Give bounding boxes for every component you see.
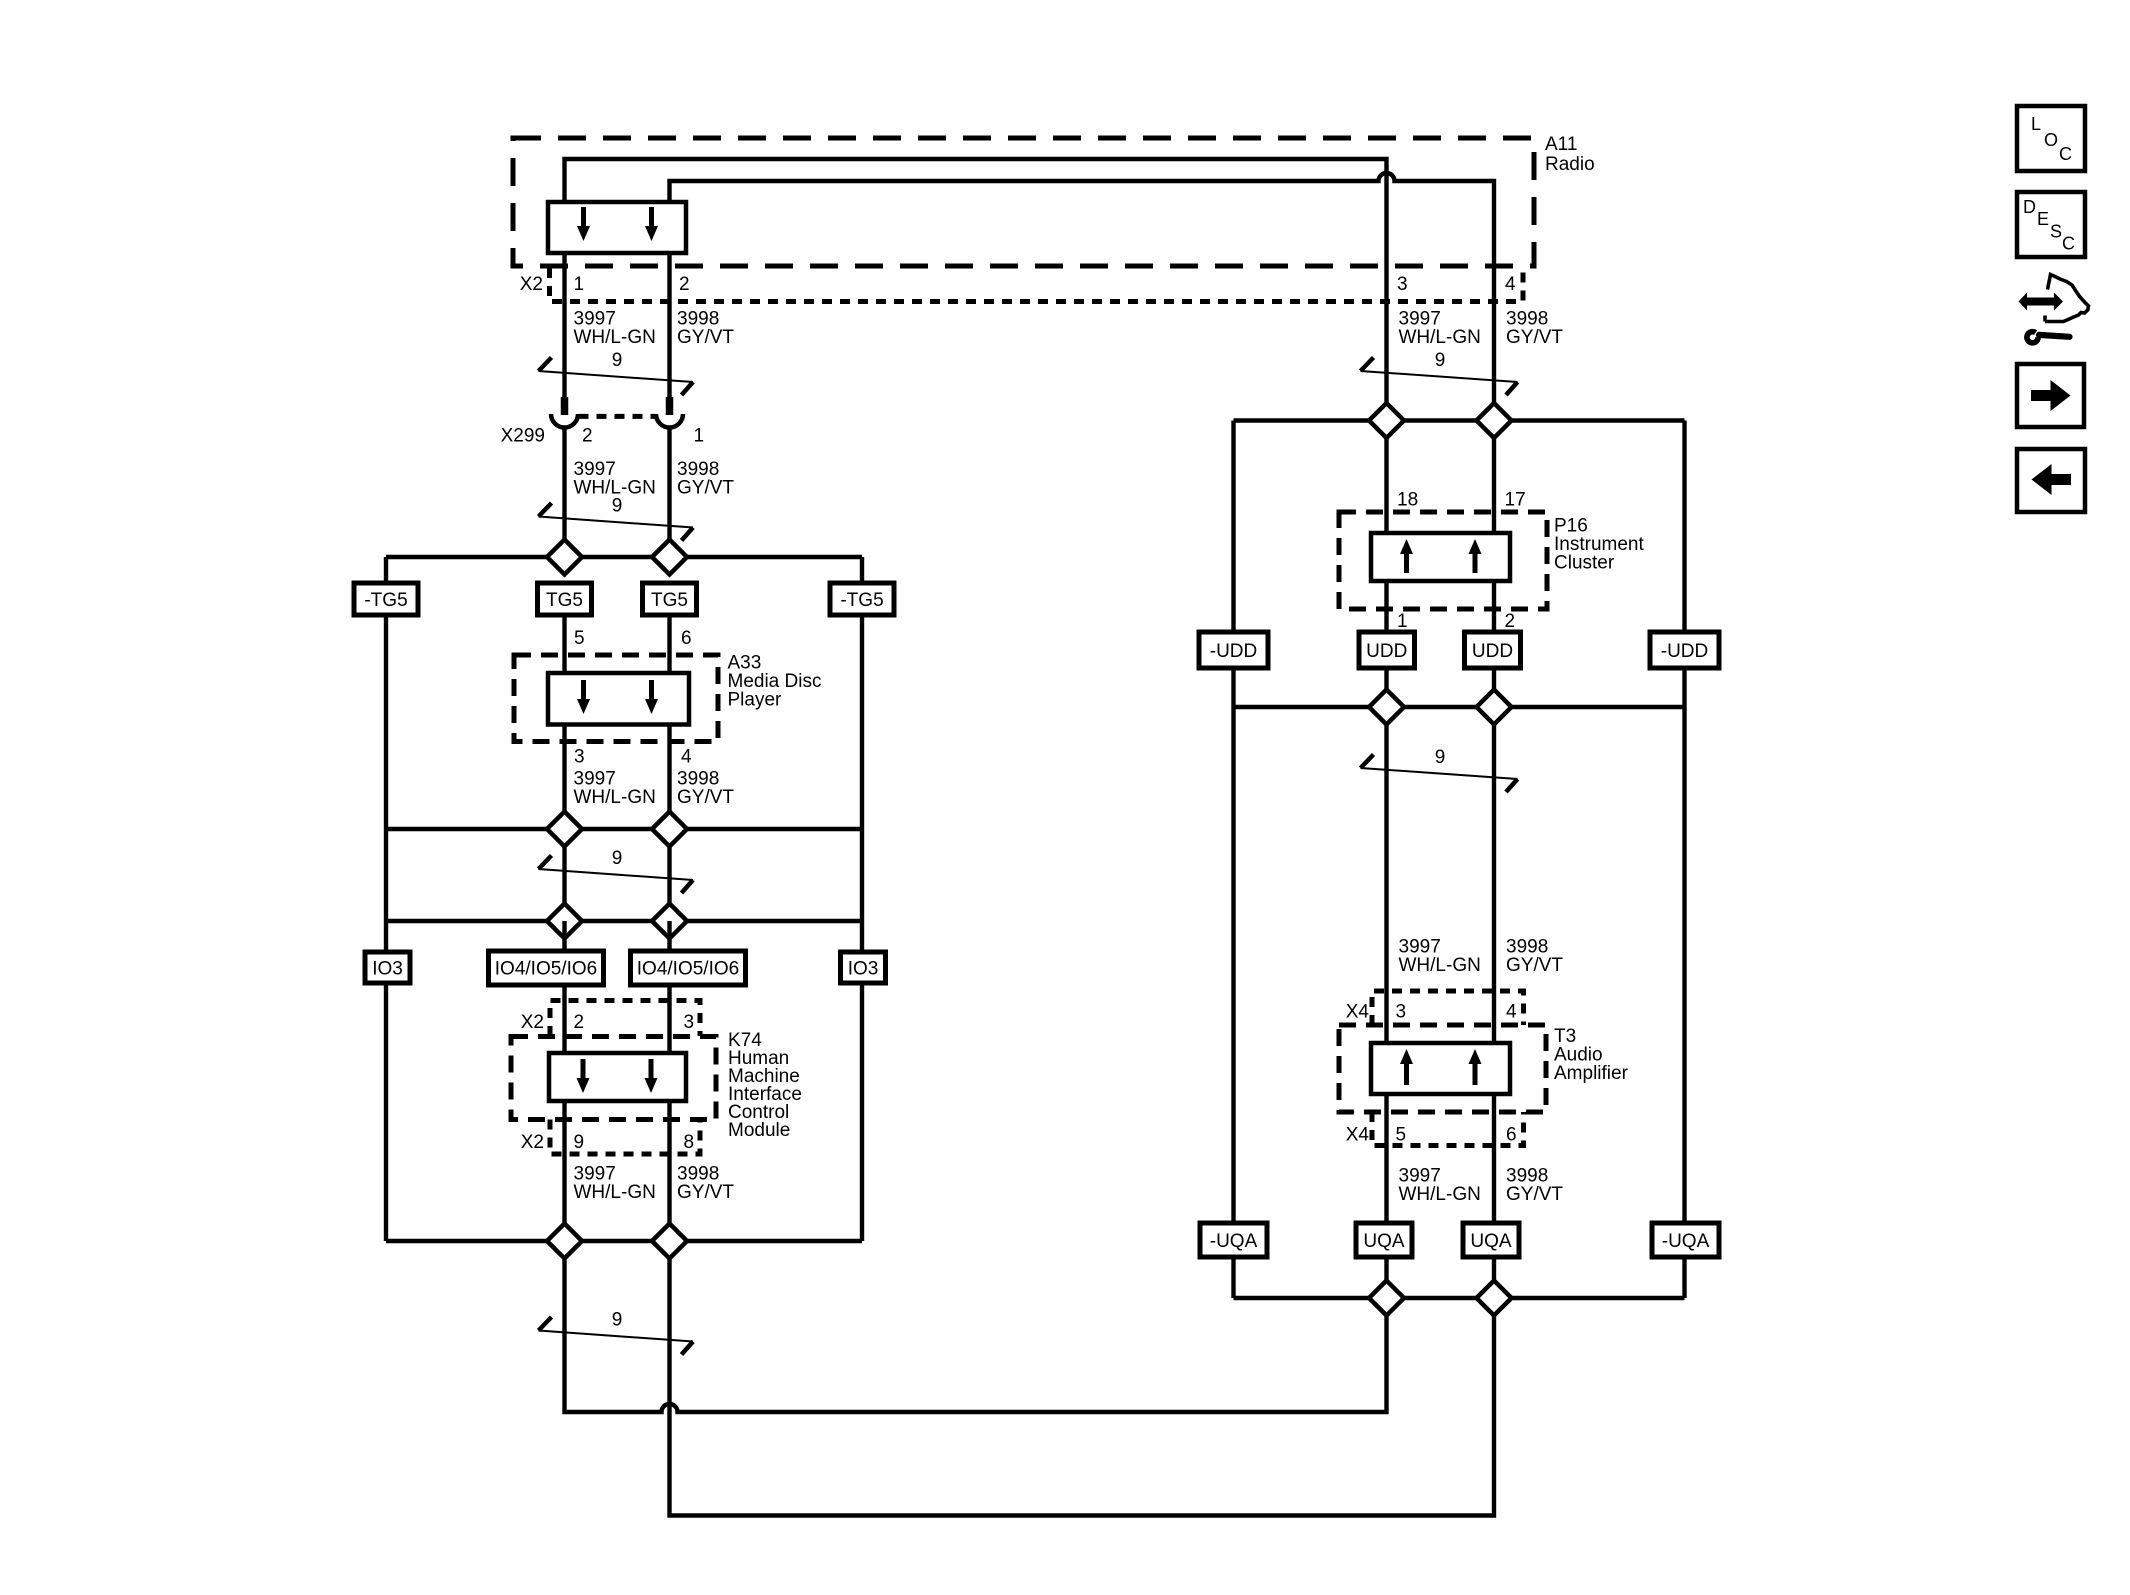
- net box IO3 right: [841, 952, 886, 983]
- label wire 3997 WH/L-GN below X2 pin 3: [1399, 309, 1481, 349]
- connector X4 of T3 upper dotted boundary: [1372, 991, 1524, 1025]
- wire -UQA right leg to bottom bus: [1682, 1257, 1686, 1298]
- A33 connector arrow pin 5: [577, 680, 590, 714]
- pin 1 of X299: [694, 426, 705, 447]
- wire 3997 below A33: [562, 725, 566, 812]
- component T3 dashed outline: [1339, 1025, 1546, 1112]
- sidebar next arrow box: [2017, 364, 2084, 427]
- wire -UDD left leg to lower bus: [1231, 668, 1235, 707]
- pin 2 of X299: [582, 426, 593, 447]
- svg-text:Cluster: Cluster: [1554, 553, 1615, 574]
- svg-text:4: 4: [1505, 274, 1516, 295]
- splice diamond on 3997 at bus4: [547, 1224, 582, 1259]
- net box UDD on 3997: [1359, 632, 1415, 668]
- bus wire IO horizontal: [386, 919, 862, 923]
- svg-text:WH/L-GN: WH/L-GN: [1399, 955, 1481, 976]
- svg-text:2: 2: [679, 274, 690, 295]
- svg-text:A11: A11: [1545, 134, 1577, 155]
- svg-text:3: 3: [684, 1012, 695, 1033]
- component A33 dashed outline: [514, 655, 718, 742]
- svg-text:1: 1: [574, 274, 585, 295]
- splice diamond on 3998 at bus2: [652, 812, 687, 847]
- T3 connector box: [1371, 1043, 1510, 1094]
- wire 3997 below UQA box: [1384, 1257, 1388, 1281]
- sidebar service icon vehicle outline: [2045, 275, 2089, 322]
- label wire 3998 GY/VT below T3: [1506, 1166, 1563, 1206]
- svg-text:9: 9: [612, 1310, 623, 1331]
- twisted pair symbol 9 left third: [539, 848, 694, 893]
- connector X4 of T3 lower dotted boundary: [1372, 1112, 1524, 1146]
- wire -UQA left leg to bottom bus: [1231, 1257, 1235, 1298]
- svg-text:O: O: [2044, 130, 2058, 150]
- wire -UDD right leg to lower bus: [1682, 668, 1686, 707]
- wire 3997 below K74: [562, 1101, 566, 1224]
- pin 2 of P16: [1505, 611, 1516, 632]
- splice diamond on 3997 at UDD top bus: [1369, 403, 1404, 438]
- wire left vertical bus2 to bus3: [384, 829, 388, 921]
- svg-text:WH/L-GN: WH/L-GN: [574, 327, 656, 348]
- twisted pair symbol 9 left second: [539, 496, 694, 541]
- wire 3997 from IO box to K74: [562, 921, 566, 1055]
- pin 2 of X2: [679, 274, 690, 295]
- svg-text:GY/VT: GY/VT: [677, 1182, 734, 1203]
- pin 3 of A33: [574, 747, 585, 768]
- svg-text:-TG5: -TG5: [364, 590, 407, 611]
- P16 connector box: [1371, 533, 1510, 581]
- pin 6 of T3: [1506, 1125, 1517, 1146]
- sidebar service icon wrench: [2027, 332, 2070, 343]
- label wire 3997 WH/L-GN below T3: [1399, 1166, 1481, 1206]
- svg-text:GY/VT: GY/VT: [677, 327, 734, 348]
- wire 3997 below UDD box: [1384, 668, 1388, 690]
- wire -TG5 left leg down to bus2: [384, 615, 388, 829]
- svg-text:S: S: [2050, 222, 2062, 242]
- wire leg UDD-top-bus to -UDD right: [1682, 421, 1686, 633]
- svg-text:1: 1: [1397, 611, 1408, 632]
- A33 connector box: [548, 673, 689, 725]
- svg-text:4: 4: [681, 747, 692, 768]
- bus wire UDD bottom horizontal: [1234, 705, 1685, 709]
- label wire 3997 WH/L-GN below A33: [574, 769, 656, 809]
- svg-text:TG5: TG5: [651, 590, 688, 611]
- connector X299 terminal on wire 3997: [551, 397, 578, 428]
- sidebar LOC box: [2017, 106, 2085, 171]
- svg-text:D: D: [2023, 197, 2036, 217]
- twisted pair symbol 9 right top: [1361, 350, 1518, 395]
- svg-text:X299: X299: [501, 426, 545, 447]
- net box UDD on 3998: [1465, 632, 1521, 668]
- K74 connector box: [549, 1053, 686, 1101]
- wire 3998 from P16 pin 2 to UDD box: [1492, 581, 1496, 632]
- label wire 3998 GY/VT below A33: [677, 769, 734, 809]
- wire 3998 GY/VT segment below X299: [667, 428, 671, 540]
- label connector X4 lower of T3: [1346, 1125, 1370, 1146]
- wire 3998 from bus to P16 pin 17: [1492, 438, 1496, 535]
- K74 connector arrow pin 2: [577, 1059, 590, 1093]
- svg-text:6: 6: [681, 628, 692, 649]
- svg-text:WH/L-GN: WH/L-GN: [574, 787, 656, 808]
- splice diamond on 3998 at bus4: [652, 1224, 687, 1259]
- splice diamond on 3998 at UDD top bus: [1477, 403, 1512, 438]
- net box IO4/IO5/IO6 right: [631, 951, 746, 985]
- pin 5 of A33: [574, 628, 585, 649]
- pin 3 of K74: [684, 1012, 695, 1033]
- wire 3997 bottom route to right diamond: [565, 1316, 1387, 1413]
- A33 connector arrow pin 6: [645, 680, 658, 714]
- svg-text:GY/VT: GY/VT: [677, 787, 734, 808]
- net box TG5 on 3998: [643, 583, 697, 615]
- svg-text:UDD: UDD: [1472, 641, 1513, 662]
- connector X2 of K74 upper dotted boundary: [550, 1001, 700, 1037]
- wire right vertical bus2 to bus3: [860, 829, 864, 921]
- svg-text:2: 2: [574, 1012, 585, 1033]
- svg-text:WH/L-GN: WH/L-GN: [1399, 1184, 1481, 1205]
- svg-text:UDD: UDD: [1366, 641, 1407, 662]
- wire 3998 below UQA box: [1492, 1257, 1496, 1281]
- net box -UQA left: [1200, 1223, 1267, 1257]
- pin 17 of P16: [1505, 490, 1526, 511]
- wire 3998 between bus2 and bus3: [667, 847, 671, 904]
- svg-text:6: 6: [1506, 1125, 1517, 1146]
- T3 connector arrow pin 4: [1469, 1049, 1482, 1085]
- svg-text:WH/L-GN: WH/L-GN: [574, 1182, 656, 1203]
- wire 3998 below T3: [1492, 1094, 1496, 1224]
- wire 3997 from bus to P16 pin 18: [1384, 438, 1388, 535]
- wire 3997 from P16 pin 1 to UDD box: [1384, 581, 1388, 632]
- pin 1 of X2: [574, 274, 585, 295]
- label P16 Instrument Cluster: [1554, 516, 1644, 574]
- pin 3 of T3: [1396, 1002, 1407, 1023]
- wire 3998 from IO box to K74: [667, 921, 671, 1055]
- wire IO3 right leg down to bus4: [860, 983, 864, 1241]
- label wire 3998 GY/VT below X2 pin 2: [677, 309, 734, 349]
- pin 8 of K74: [684, 1132, 695, 1153]
- net box -UDD left: [1199, 632, 1268, 668]
- leg to IO3 right: [860, 921, 864, 952]
- wire 3998 below A33: [667, 725, 671, 812]
- svg-text:X2: X2: [520, 274, 543, 295]
- svg-text:4: 4: [1506, 1002, 1517, 1023]
- bus wire UQA bottom horizontal: [1234, 1296, 1685, 1300]
- label A33 Media Disc Player: [728, 653, 822, 711]
- label A11 Radio: [1545, 134, 1595, 175]
- wire 3997 below bus4: [562, 1259, 566, 1411]
- label wire 3998 GY/VT below X2 pin 4: [1506, 309, 1563, 349]
- svg-text:9: 9: [612, 496, 623, 517]
- A11 radio connector box: [548, 202, 686, 253]
- splice diamond on 3997 at TG5 bus: [547, 540, 582, 575]
- wire 3997 right segment above UDD bus: [1384, 401, 1388, 405]
- svg-text:3: 3: [1396, 1002, 1407, 1023]
- svg-text:WH/L-GN: WH/L-GN: [1399, 327, 1481, 348]
- splice diamond on 3998 at UQA bottom bus: [1477, 1281, 1512, 1316]
- label T3 Audio Amplifier: [1554, 1026, 1629, 1084]
- wire 3998 top run from A11 connector to pin 4 drop with hop over 3997: [670, 173, 1495, 268]
- svg-text:1: 1: [694, 426, 705, 447]
- svg-text:Module: Module: [728, 1120, 790, 1141]
- net box IO3 left: [365, 952, 410, 983]
- net box UQA on 3997: [1356, 1223, 1412, 1257]
- twisted pair symbol 9 left bottom: [539, 1310, 694, 1355]
- net box -TG5 right: [830, 583, 894, 615]
- svg-text:9: 9: [1435, 350, 1446, 371]
- component K74 dashed outline: [511, 1037, 716, 1120]
- svg-text:17: 17: [1505, 490, 1526, 511]
- label wire 3998 GY/VT below X299: [677, 459, 734, 499]
- wire 3997 from UDD bus to X4: [1384, 725, 1388, 1046]
- wire IO3 left leg down to bus4: [384, 983, 388, 1241]
- pin 1 of P16: [1397, 611, 1408, 632]
- sidebar service icon double arrow: [2019, 293, 2064, 311]
- label wire 3998 GY/VT above T3: [1506, 937, 1563, 977]
- wire right vertical UDD bus to -UQA: [1682, 707, 1686, 1223]
- splice diamond on 3997 at UQA bottom bus: [1369, 1281, 1404, 1316]
- leg to -TG5 right: [860, 557, 864, 583]
- T3 connector arrow pin 3: [1400, 1049, 1413, 1085]
- label connector X2: [520, 274, 543, 295]
- wire leg UDD-top-bus to -UDD left: [1231, 421, 1235, 633]
- label wire 3997 WH/L-GN above T3: [1399, 937, 1481, 977]
- svg-text:9: 9: [1435, 747, 1446, 768]
- wire left vertical UDD bus to -UQA: [1231, 707, 1235, 1223]
- svg-text:-TG5: -TG5: [840, 590, 883, 611]
- wire 3997 WH/L-GN segment below X2 pin 1: [562, 253, 566, 397]
- svg-text:C: C: [2059, 144, 2072, 164]
- bus wire UDD top horizontal: [1234, 418, 1685, 422]
- label wire 3997 WH/L-GN below K74: [574, 1164, 656, 1204]
- bus wire bottom-left horizontal: [386, 1239, 862, 1243]
- pin 4 of A33: [681, 747, 692, 768]
- wire 3998 GY/VT segment below X2 pin 2: [667, 253, 671, 397]
- svg-text:5: 5: [574, 628, 585, 649]
- svg-text:2: 2: [1505, 611, 1516, 632]
- svg-text:GY/VT: GY/VT: [1506, 955, 1563, 976]
- wire 3998 from TG5 to A33 pin 6: [667, 615, 671, 675]
- splice diamond on 3998 at UDD bottom bus: [1477, 690, 1512, 725]
- net box UQA on 3998: [1463, 1223, 1519, 1257]
- svg-text:5: 5: [1396, 1125, 1407, 1146]
- label wire 3997 WH/L-GN below X299: [574, 459, 656, 499]
- pin 2 of K74: [574, 1012, 585, 1033]
- component A11 Radio dashed outline: [513, 138, 1534, 266]
- wire 3998 bottom route to right diamond: [670, 1259, 1495, 1516]
- K74 connector arrow pin 3: [645, 1059, 658, 1093]
- svg-text:E: E: [2037, 209, 2049, 229]
- pin 4 of T3: [1506, 1002, 1517, 1023]
- pin 5 of T3: [1396, 1125, 1407, 1146]
- P16 connector arrow pin 17: [1469, 539, 1482, 573]
- net box -TG5 left: [354, 583, 418, 615]
- svg-text:IO4/IO5/IO6: IO4/IO5/IO6: [637, 959, 739, 980]
- pin 18 of P16: [1397, 490, 1418, 511]
- svg-text:2: 2: [582, 426, 593, 447]
- wire 3997 WH/L-GN segment below X299: [562, 428, 566, 540]
- A11 connector arrow pin 1: [577, 207, 590, 241]
- svg-text:3: 3: [1397, 274, 1408, 295]
- svg-text:IO3: IO3: [372, 958, 403, 979]
- connector X299 dotted link: [579, 414, 656, 419]
- wire 3997 below T3: [1384, 1094, 1388, 1224]
- svg-text:9: 9: [612, 848, 623, 869]
- wire 3997 top run from A11 connector to pin 3 drop: [565, 159, 1387, 268]
- splice diamond on 3997 at IO bus: [547, 904, 582, 939]
- sidebar DESC box: [2017, 192, 2085, 257]
- svg-text:IO3: IO3: [848, 958, 879, 979]
- svg-text:X2: X2: [521, 1012, 544, 1033]
- label connector X2 lower of K74: [521, 1132, 544, 1153]
- pin 4 of X2: [1505, 274, 1516, 295]
- label connector X299: [501, 426, 545, 447]
- component P16 dashed outline: [1339, 512, 1547, 609]
- splice diamond on 3998 at TG5 bus: [652, 540, 687, 575]
- connector X2 of K74 lower dotted boundary: [550, 1120, 700, 1155]
- svg-text:X2: X2: [521, 1132, 544, 1153]
- splice diamond on 3997 at UDD bottom bus: [1369, 690, 1404, 725]
- svg-text:IO4/IO5/IO6: IO4/IO5/IO6: [495, 959, 597, 980]
- svg-text:GY/VT: GY/VT: [677, 478, 734, 499]
- svg-text:X4: X4: [1346, 1125, 1370, 1146]
- svg-text:UQA: UQA: [1470, 1231, 1512, 1252]
- twisted pair symbol 9 right middle: [1361, 747, 1518, 792]
- svg-text:Player: Player: [728, 690, 783, 711]
- label connector X4 upper of T3: [1346, 1002, 1370, 1023]
- svg-text:C: C: [2062, 234, 2075, 254]
- splice diamond on 3997 at bus2: [547, 812, 582, 847]
- net box IO4/IO5/IO6 left: [489, 951, 604, 985]
- label wire 3997 WH/L-GN below X2 pin 1: [574, 309, 656, 349]
- net box TG5 on 3997: [538, 583, 592, 615]
- connector X299 terminal on wire 3998: [656, 397, 683, 428]
- svg-text:-UDD: -UDD: [1661, 641, 1709, 662]
- svg-text:X4: X4: [1346, 1002, 1370, 1023]
- svg-text:8: 8: [684, 1132, 695, 1153]
- wire -TG5 right leg down to bus2: [860, 615, 864, 829]
- svg-text:9: 9: [612, 350, 623, 371]
- sidebar back arrow box: [2017, 449, 2085, 512]
- bus wire below A33 horizontal: [386, 827, 862, 831]
- pin 6 of A33: [681, 628, 692, 649]
- net box -UQA right: [1652, 1223, 1719, 1257]
- label K74 Human Machine Interface Control Module: [728, 1030, 802, 1141]
- A11 connector arrow pin 2: [645, 207, 658, 241]
- leg to -TG5 left: [384, 557, 388, 583]
- svg-text:3: 3: [574, 747, 585, 768]
- wire 3998 GY/VT segment below X2 pin 4: [1492, 268, 1496, 403]
- wire 3997 from TG5 to A33 pin 5: [562, 615, 566, 675]
- wire 3997 WH/L-GN segment below X2 pin 3: [1384, 268, 1388, 403]
- svg-text:UQA: UQA: [1363, 1231, 1405, 1252]
- pin 9 of K74: [574, 1132, 585, 1153]
- net box -UDD right: [1650, 632, 1719, 668]
- wire 3998 from UDD bus to X4: [1492, 725, 1496, 1046]
- label wire 3998 GY/VT below K74: [677, 1164, 734, 1204]
- svg-text:18: 18: [1397, 490, 1418, 511]
- svg-text:GY/VT: GY/VT: [1506, 1184, 1563, 1205]
- leg to IO3 left: [384, 921, 388, 952]
- svg-text:GY/VT: GY/VT: [1506, 327, 1563, 348]
- wire 3998 below UDD box: [1492, 668, 1496, 690]
- label connector X2 upper of K74: [521, 1012, 544, 1033]
- P16 connector arrow pin 18: [1400, 539, 1413, 573]
- pin 3 of X2: [1397, 274, 1408, 295]
- connector X2 dotted boundary: [550, 268, 1524, 302]
- svg-text:-UQA: -UQA: [1210, 1231, 1258, 1252]
- svg-text:TG5: TG5: [546, 590, 583, 611]
- svg-text:L: L: [2031, 114, 2041, 134]
- svg-text:9: 9: [574, 1132, 585, 1153]
- wire 3997 between bus2 and bus3: [562, 847, 566, 904]
- splice diamond on 3998 at IO bus: [652, 904, 687, 939]
- svg-text:Radio: Radio: [1545, 154, 1595, 175]
- svg-text:-UDD: -UDD: [1210, 641, 1258, 662]
- svg-text:Amplifier: Amplifier: [1554, 1063, 1629, 1084]
- svg-text:-UQA: -UQA: [1662, 1231, 1710, 1252]
- wire 3998 below K74: [667, 1101, 671, 1224]
- twisted pair symbol 9 left top: [539, 350, 694, 395]
- bus wire TG5 horizontal: [386, 555, 862, 559]
